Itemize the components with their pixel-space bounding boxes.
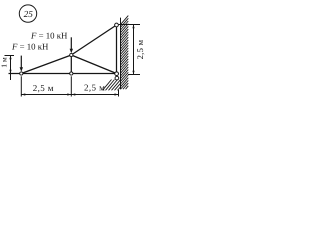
dimension 2,5 m (bottom left span A-B) [21, 76, 118, 96]
wire: bottom chord A-B-C [9, 73, 119, 75]
member D-B vertical [70, 55, 72, 74]
svg-text:2,5 м: 2,5 м [84, 82, 105, 92]
node D [70, 53, 73, 56]
member E-C vertical at wall [116, 25, 118, 74]
node E (top wall pin) [115, 23, 119, 27]
force arrow at node D [70, 37, 73, 53]
wall hatching band [121, 16, 129, 90]
node A [20, 72, 23, 75]
svg-text:2,5 м: 2,5 м [33, 83, 54, 93]
force arrow at node A [20, 56, 23, 72]
member D-C diagonal [71, 55, 116, 74]
svg-text:1 м: 1 м [0, 57, 9, 68]
node C (bottom wall pin) [115, 72, 119, 76]
member A-D diagonal [21, 55, 71, 74]
member D-E diagonal [71, 25, 116, 55]
dimension 1 m (left) [0, 56, 14, 81]
dimension 2,5 m (bottom right span B-C) [84, 82, 119, 96]
svg-text:F = 10 кН: F = 10 кН [11, 41, 49, 51]
svg-text:F = 10 кН: F = 10 кН [30, 30, 68, 40]
node B [70, 72, 73, 75]
dimension 2,5 m (right, wall height E-C) [119, 25, 145, 75]
node C lower pin of support link [115, 76, 119, 80]
variant number circle 25 [19, 5, 36, 22]
background [0, 0, 150, 100]
svg-text:2,5 м: 2,5 м [135, 39, 145, 59]
wall hatching patch below support C [103, 80, 121, 91]
wall edge line [120, 18, 122, 90]
svg-text:25: 25 [24, 9, 34, 19]
